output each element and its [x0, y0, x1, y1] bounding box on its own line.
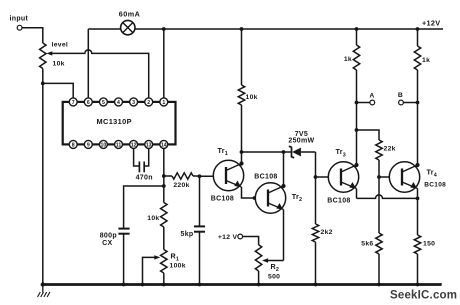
svg-text:+12V: +12V	[422, 18, 440, 27]
svg-text:100k: 100k	[170, 263, 186, 270]
svg-text:60mA: 60mA	[119, 10, 141, 19]
transistor Q Tr2	[254, 174, 302, 214]
svg-text:BC108: BC108	[254, 174, 277, 181]
junction pin14-220k	[162, 174, 166, 178]
svg-text:B: B	[398, 92, 403, 99]
transistor Q Tr4	[389, 162, 446, 192]
junction B	[416, 101, 420, 105]
potentiometer R2 500	[255, 245, 280, 285]
R2 wiper arrow	[262, 258, 268, 262]
wire Tr3 emitter	[356, 189, 358, 199]
wire Tr3 collector up	[356, 130, 358, 165]
resistor 10k mid	[147, 203, 167, 250]
wire Tr3 base	[316, 176, 342, 178]
svg-text:BC108: BC108	[424, 181, 446, 188]
junction pot-pin7	[41, 82, 45, 86]
terminal B	[398, 92, 418, 105]
junction R2-bus	[257, 283, 261, 287]
junction 1kright-rail	[416, 27, 420, 31]
wire 800p tap	[124, 186, 164, 229]
wire Tr1 collector up	[241, 152, 243, 164]
svg-text:10k: 10k	[53, 61, 65, 68]
resistor 220k	[164, 173, 199, 189]
wire Tr1coll to 10k	[241, 105, 243, 152]
svg-text:22k: 22k	[384, 146, 396, 153]
svg-text:500: 500	[268, 274, 280, 281]
svg-text:CX: CX	[102, 240, 112, 247]
wire Tr4 collector up	[417, 103, 419, 166]
svg-text:+12 V: +12 V	[218, 234, 238, 241]
junction Tr1coll-zener	[240, 150, 244, 154]
wire Tr2e to R2 wiper	[264, 260, 284, 262]
svg-text:12: 12	[131, 142, 137, 148]
svg-text:SeekIC.com: SeekIC.com	[390, 290, 457, 302]
transistor Q Tr1	[211, 146, 244, 202]
junction 800p-bus	[122, 283, 126, 287]
svg-text:800p: 800p	[100, 232, 117, 239]
svg-text:3: 3	[132, 100, 135, 106]
wire Tr1 base	[200, 175, 227, 177]
wire 22k tap	[357, 130, 380, 140]
junction Tr2coll-zener	[282, 150, 286, 154]
svg-text:470n: 470n	[136, 174, 153, 181]
wire pot down to ground	[42, 69, 44, 285]
resistor 1k right	[414, 29, 430, 103]
svg-text:11: 11	[116, 142, 122, 148]
SeekIC.com watermark	[390, 290, 457, 302]
junction R1wiper-bus	[141, 283, 145, 287]
svg-text:2k2: 2k2	[321, 229, 333, 236]
wire 5k6 down	[378, 177, 380, 233]
wire rail left segment	[88, 29, 121, 98]
svg-text:8: 8	[72, 142, 75, 148]
ground	[38, 285, 50, 298]
junction 10k-rail	[240, 27, 244, 31]
junction emitterline-150	[416, 197, 420, 201]
input terminal	[10, 16, 29, 31]
wire wiper to pin2	[51, 50, 149, 98]
svg-text:220k: 220k	[173, 182, 189, 189]
wire Tr2 emitter down	[283, 210, 285, 261]
wire Tr4 emitter	[417, 189, 419, 199]
R1 wiper arrow	[143, 255, 161, 284]
capacitor 5kp	[181, 226, 205, 284]
svg-text:5kp: 5kp	[181, 231, 194, 238]
svg-text:level: level	[52, 42, 69, 49]
capacitor CX 800p	[100, 229, 130, 285]
lamp 60mA	[119, 10, 141, 35]
svg-text:BC108: BC108	[211, 195, 234, 202]
wire Tr2 collector up	[283, 152, 285, 186]
pot wiper arrow	[46, 51, 52, 55]
wire pin14 down	[163, 148, 165, 203]
resistor 5k6	[361, 233, 382, 285]
svg-text:2: 2	[147, 100, 150, 106]
svg-text:4: 4	[117, 100, 120, 106]
wire 5kp down	[199, 176, 201, 226]
junction 22k-Tr4base-5k6	[377, 175, 381, 179]
svg-text:13: 13	[146, 142, 152, 148]
junction Tr1e-Tr2b	[253, 196, 257, 200]
svg-text:9: 9	[87, 142, 90, 148]
wire +12V rail	[135, 28, 443, 30]
svg-text:10k: 10k	[246, 94, 258, 101]
wire input to pot	[22, 28, 43, 43]
junction 1kleft-rail	[355, 27, 359, 31]
junction 5kp-bus	[198, 283, 202, 287]
wire 12V to R2	[243, 237, 259, 245]
svg-text:14: 14	[161, 142, 167, 148]
svg-text:250mW: 250mW	[288, 138, 314, 145]
junction 22k tap	[355, 128, 359, 132]
resistor 22k	[376, 140, 396, 177]
wire pin13 lead	[144, 148, 149, 166]
wire zener left	[242, 151, 284, 153]
svg-text:MC1310P: MC1310P	[97, 117, 132, 126]
svg-text:1: 1	[162, 100, 165, 106]
wire pin12 lead	[134, 148, 140, 166]
potentiometer level 10k	[40, 42, 69, 69]
svg-text:150: 150	[423, 241, 435, 248]
wire zener down to Tr3 base	[315, 152, 317, 177]
junction zener-2k2-Tr3	[314, 175, 318, 179]
resistor 150	[414, 198, 435, 284]
svg-text:7: 7	[72, 100, 75, 106]
wire emitter line with hop	[357, 195, 418, 199]
junction rail pin1	[162, 27, 166, 31]
svg-text:5k6: 5k6	[361, 241, 373, 248]
junction 150-bus	[416, 283, 420, 287]
junction 800p tap	[162, 184, 166, 188]
svg-text:5: 5	[102, 100, 105, 106]
wire Tr1 emitter to Tr2 base	[242, 187, 269, 198]
svg-text:1k: 1k	[422, 57, 430, 64]
wire A line	[356, 103, 358, 131]
ground bus wire	[43, 283, 442, 286]
svg-text:10: 10	[101, 142, 107, 148]
+12V terminal R2	[218, 234, 243, 241]
svg-text:6: 6	[87, 100, 90, 106]
resistor 2k2	[312, 177, 332, 285]
capacitor C 470n	[136, 162, 153, 182]
potentiometer R1 100k	[161, 250, 186, 285]
wire Tr4 base	[379, 176, 402, 178]
svg-text:BC108: BC108	[327, 197, 350, 204]
zener diode 7V5 250mW	[284, 131, 316, 158]
op-amp IC U1 MC1310P	[63, 98, 176, 148]
junction 5k6-bus	[377, 283, 381, 287]
+12V label	[422, 18, 440, 27]
wire to pin 7	[43, 83, 73, 98]
transistor Q Tr3	[327, 147, 358, 204]
junction bus start	[41, 282, 45, 286]
svg-text:10k: 10k	[147, 215, 159, 222]
svg-text:input: input	[10, 16, 29, 23]
svg-text:A: A	[369, 93, 374, 100]
junction R1-bus	[162, 283, 166, 287]
junction A	[355, 101, 359, 105]
resistor 10k top	[238, 29, 257, 105]
junction 2k2-bus	[314, 283, 318, 287]
junction 220k-Tr1base	[198, 174, 202, 178]
terminal A	[357, 93, 375, 105]
svg-text:1k: 1k	[344, 56, 352, 63]
wire pin1	[163, 29, 165, 98]
resistor 1k left	[344, 29, 360, 103]
